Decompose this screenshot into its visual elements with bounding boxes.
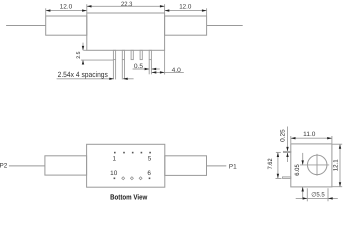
lower key tab	[283, 177, 291, 179]
dimension diameter 5.5	[296, 188, 338, 201]
svg-text:0.25: 0.25	[280, 129, 287, 142]
pin 5 (side view)	[149, 50, 151, 59]
svg-text:6: 6	[147, 170, 151, 177]
upper key tab	[284, 151, 291, 152]
pin 1 (side view)	[113, 50, 115, 59]
dimension 6.05	[294, 153, 304, 198]
body outline (side view)	[87, 13, 165, 50]
pin 4 (side view)	[140, 50, 142, 59]
svg-text:P1: P1	[229, 164, 237, 171]
svg-text:2.54x 4 spacings: 2.54x 4 spacings	[58, 70, 108, 79]
svg-text:22.3: 22.3	[121, 1, 133, 8]
svg-text:∅5.5: ∅5.5	[311, 191, 325, 198]
dimension 7.62	[267, 152, 281, 178]
dimension 12.0 left	[46, 3, 87, 15]
svg-text:4.0: 4.0	[172, 67, 182, 74]
svg-text:7.62: 7.62	[267, 158, 274, 170]
svg-text:12.0: 12.0	[179, 3, 192, 10]
svg-text:6.05: 6.05	[294, 164, 301, 176]
pin dots row 1 (pins 1-5)	[114, 152, 151, 154]
body outline (bottom view)	[87, 144, 165, 187]
dimension 12.0 right	[165, 3, 207, 15]
svg-text:2.5: 2.5	[76, 51, 82, 58]
circle crosshair horizontal	[300, 164, 329, 166]
circle crosshair vertical	[316, 154, 318, 176]
left sleeve (bottom view)	[45, 156, 87, 175]
pin 2 (side view)	[122, 50, 124, 59]
svg-text:12.1: 12.1	[333, 159, 340, 172]
right fiber wire	[207, 25, 243, 27]
dimension 0.5 (pin width)	[133, 60, 160, 75]
dimension 22.3	[87, 1, 165, 13]
svg-text:12.0: 12.0	[60, 3, 73, 10]
svg-text:0.5: 0.5	[134, 63, 144, 70]
svg-text:10: 10	[110, 170, 118, 177]
svg-text:5: 5	[148, 155, 152, 162]
dimension 4.0	[152, 50, 184, 74]
right sleeve (bottom view)	[165, 156, 207, 176]
right sleeve (side view)	[165, 16, 207, 35]
dimension 11.0	[291, 131, 332, 143]
fiber bore circle	[307, 155, 327, 175]
left fiber wire P2	[9, 165, 45, 167]
right fiber wire P1	[207, 165, 227, 167]
left sleeve (side view)	[46, 16, 87, 35]
dimension 2.5 (pin length)	[76, 43, 113, 65]
pin marks row 2 (pins 6-10)	[114, 177, 151, 180]
dimension 2.54x 4 spacings	[57, 60, 134, 80]
svg-text:Bottom View: Bottom View	[110, 193, 147, 202]
svg-text:P2: P2	[0, 162, 8, 169]
dimension 12.1	[332, 144, 342, 187]
svg-text:1: 1	[113, 155, 117, 162]
dimension 0.25	[280, 127, 289, 163]
pin 3 (side view)	[131, 50, 133, 59]
package outline (end view)	[291, 144, 332, 187]
svg-text:11.0: 11.0	[303, 131, 316, 138]
left fiber wire	[6, 25, 46, 27]
